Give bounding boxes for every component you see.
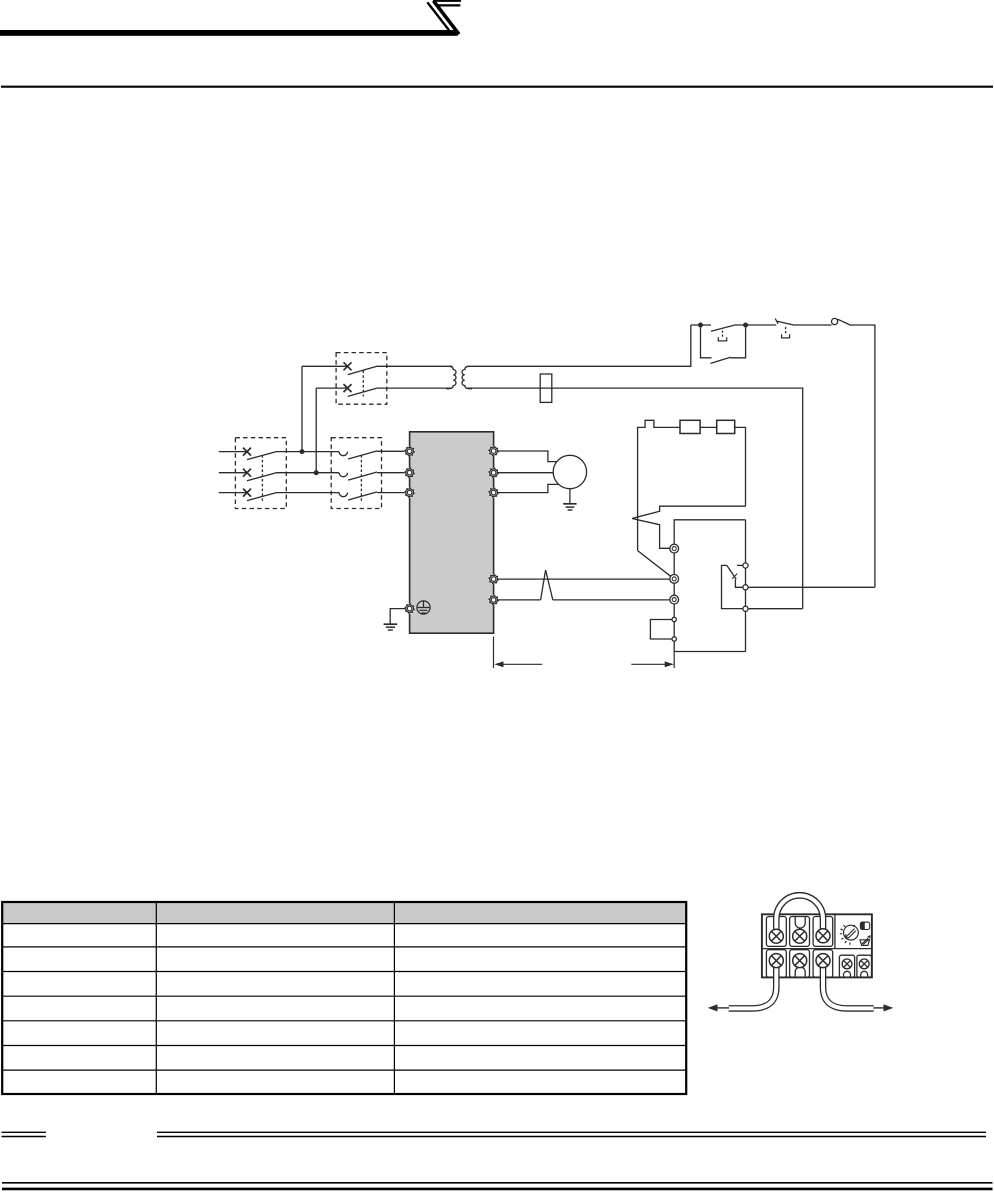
fuse F4 control [540,374,552,402]
terminal block mid divider [762,948,872,950]
start switch actuator bracket [718,337,726,341]
start switch blade upper [711,325,734,331]
contactor blade phase R [348,451,377,459]
unit B box outline [674,520,745,652]
screw top 2 [793,929,807,943]
stop switch blade [777,321,795,325]
header thick rule [0,30,458,36]
node tap phase R [300,449,305,454]
dimension arrow left [497,663,542,665]
stop switch tick [775,319,778,324]
exit wire left [729,958,777,1008]
table row line 7 [2,1069,686,1071]
icon cup [860,936,870,945]
terminal control 1 drive [489,574,499,584]
wire between resistors [700,426,717,428]
linkage dashed control switch [362,371,364,397]
table row line 5 [2,1020,686,1022]
header zigzag top line 1 [433,0,461,2]
linkage dashed disconnect [261,455,263,501]
contact node bottom [743,606,748,611]
disconnect blade phase T [247,493,276,501]
motor M circle [553,455,586,488]
exit wire right [823,958,874,1008]
contactor M box (dashed) [331,438,381,509]
node start contact left [698,323,703,328]
wire control L2 segment [316,387,347,389]
slot top 2 [790,917,810,947]
table row line 3 [2,971,686,973]
wire motor to ground [569,489,571,504]
wire arrow tail to terminal 1 [632,506,745,548]
screw bottom 2 [793,954,807,968]
small slot right 2 [857,955,872,977]
HEADER [0,30,458,36]
slot bottom 2 arch cutout [795,967,805,977]
terminal S drive input [405,468,415,478]
screw top 3 [816,929,830,943]
contactor blade phase S [348,472,377,480]
footer right double rule [157,1132,986,1136]
wire phase R to drive [377,450,405,452]
small slot 1 arch [844,971,851,977]
dimension arrow right [631,663,671,665]
limit switch blade [838,319,851,325]
header zigzag diagonal thin [427,2,449,30]
stop switch actuator bracket [782,334,790,338]
changeover contact bracket [722,565,743,608]
start maintained blade lower [711,357,731,363]
coil node bottom [672,637,676,641]
terminal V drive output [489,468,499,478]
wire control line to start switch [691,324,711,326]
ground symbol drive [384,623,398,625]
small screw 2 [859,959,869,969]
contactor contact arc phase R [339,452,347,456]
wire control 2 to unit B left part [498,599,541,601]
drive unit box [410,432,494,633]
table row line 1 [2,923,686,925]
slot top 3 [813,917,833,947]
wire limit switch to right rail [851,325,875,587]
TERMINAL BLOCK ILLUSTRATION [708,895,893,1011]
thermal blade to terminal 2 [638,551,671,577]
wire phase S to drive [377,472,405,474]
three phase input disconnect box (dashed) [235,438,286,509]
terminal B2 [670,575,679,584]
slot bottom 3 [813,950,833,978]
slot top 2 arch cutout [795,917,805,929]
wire phase R to contactor [276,451,340,453]
wire start maintained leg left [701,325,712,358]
bottom thin rule [2,1182,993,1184]
wire phase T to drive [377,492,405,494]
fuse X mark control pole 2 [344,384,352,392]
wire tap down from control L1 [301,366,303,451]
fuse X mark control pole 1 [344,362,352,370]
small slot right 1 [839,955,854,977]
table row line 2 [2,946,686,948]
wire phase S input [219,472,247,474]
fuse X mark phase T [243,489,251,497]
node start contact right [743,323,748,328]
relay coil box [650,620,674,640]
wire resistor to right leg [735,427,746,506]
table row line 4 [2,995,686,997]
FOOTER [2,1132,993,1189]
jumper wire upper part redrawn [776,895,823,931]
terminal block body [762,914,872,977]
footer left double rule [2,1132,46,1136]
wire PE to ground [390,609,405,624]
dimension extension line unit B [673,652,675,669]
transformer T1 secondary coil [462,366,472,388]
contactor contact arc phase T [339,493,347,497]
small slot 2 arch [861,971,868,977]
PE symbol in drive [417,601,430,614]
wire control 1 to unit B [498,578,670,580]
wire control 2 to unit B right part [553,599,670,601]
contact node top [743,563,748,568]
wire break caret [541,570,553,600]
table header row fill [3,902,687,923]
terminal PE drive [405,604,415,614]
switch blade control pole 1 [348,366,377,374]
small screw 1 [842,959,852,969]
icon battery [860,922,869,929]
wire control L1 segment [302,365,348,367]
wire control L2 to transformer [377,387,453,389]
node tap phase S [314,470,319,475]
wire U to motor [498,451,557,462]
terminal R drive input [405,446,415,456]
changeover blade tick [732,574,737,579]
stop switch actuator dashed [785,327,787,334]
coil node top [672,617,676,621]
wire phase S to contactor [276,472,340,474]
wire secondary top [467,325,691,366]
table row line 6 [2,1045,686,1047]
table column line 2 [393,902,395,1094]
wire V to motor [498,472,553,474]
start switch actuator dashed [722,331,724,338]
fuse X mark phase S [243,469,251,477]
control branch fused disconnect box (dashed) [336,353,387,405]
wire start switch to stop switch [734,324,776,326]
changeover blade [727,565,736,579]
wire contact middle to right rail [748,586,875,588]
TABLE [2,902,686,1094]
header zigzag diagonal thick [433,1,459,34]
braking resistor unit outline [638,420,680,550]
resistor DB2 [717,420,735,433]
icon lamp circle [840,925,859,945]
screw top 1 [769,929,783,943]
disconnect blade phase R [247,452,276,460]
wire stop switch to limit switch [795,324,832,326]
ground symbol motor [563,503,576,505]
wire start maintained leg right [730,325,745,358]
terminal W drive output [489,488,499,498]
switch blade control pole 2 [348,388,377,396]
wire control L1 to transformer [377,365,453,367]
disconnect blade phase S [247,473,276,481]
header thin rule [1,86,993,88]
terminal block right panel divider [834,914,836,948]
contactor blade phase T [348,492,377,500]
contact node middle [743,585,748,590]
linkage dashed contactor [360,455,362,501]
wire phase T input [219,492,247,494]
wire secondary bottom [467,388,803,608]
table column line 1 [155,902,157,1094]
contactor contact arc phase S [339,473,347,477]
wire W to motor [498,484,559,492]
slot bottom 1 [766,950,786,978]
screw bottom 1 [769,954,783,968]
slot bottom 2 [790,950,810,978]
header zigzag top line 2 [436,4,460,6]
arrow right [873,1007,885,1009]
terminal T drive input [405,488,415,498]
CIRCUIT DIAGRAM [219,318,875,668]
changeover blade to NO contact [735,579,742,587]
resistor DB1 [680,420,700,433]
changeover stub top [737,564,743,566]
bottom thick rule [2,1188,993,1191]
wire tap down from control L2 [315,388,317,473]
terminal control 2 drive [489,595,499,605]
limit switch pivot circle [832,318,838,324]
jumper wire over terminals [776,895,823,934]
screw bottom 3 [816,954,830,968]
slot top 1 [766,917,786,947]
terminal B1 [670,544,679,553]
wire contact bottom to fuse rail [748,608,803,610]
wire phase T to contactor [276,492,340,494]
terminal U drive output [489,446,499,456]
table outer border [2,902,686,1094]
transformer T1 primary coil [446,366,456,388]
dimension extension line drive [493,637,495,669]
arrow left [717,1007,730,1009]
terminal B3 [670,595,679,604]
fuse X mark phase R [243,448,251,456]
wire phase R input [219,451,247,453]
